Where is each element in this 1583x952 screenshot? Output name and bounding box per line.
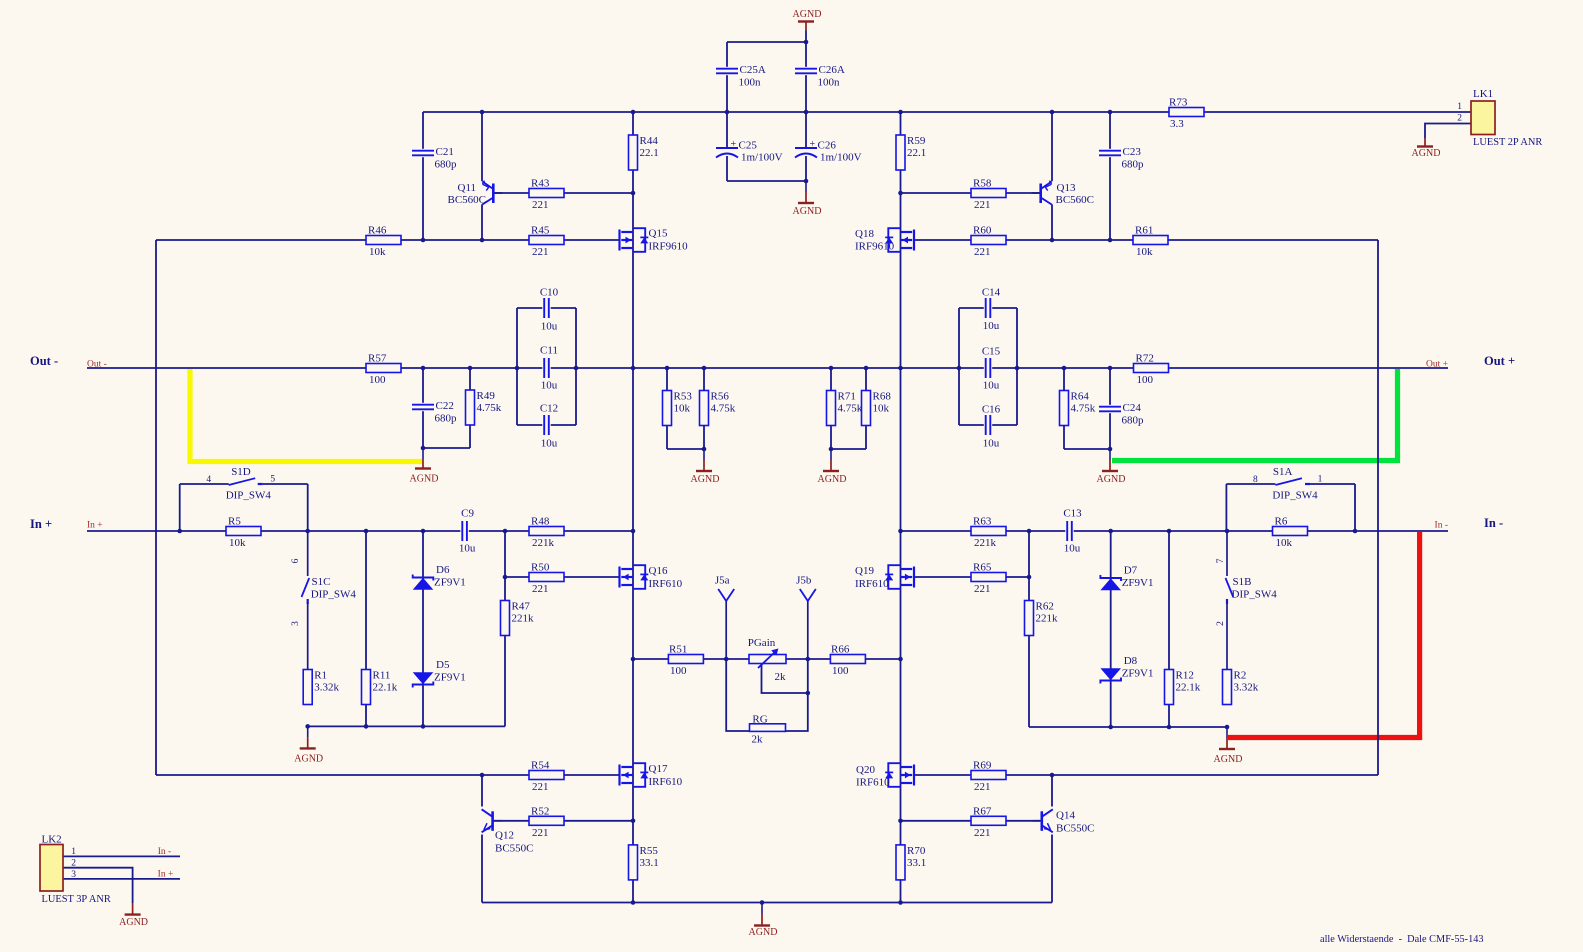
wire R56 column [703, 368, 705, 449]
jumper J5b [796, 575, 816, 659]
transistor Q13 (BC560C PNP) [1032, 181, 1094, 206]
highlight wire yellow (Out- to AGND) [190, 369, 423, 462]
capacitor C26A [795, 64, 845, 89]
resistor R43 [529, 178, 564, 212]
svg-text:In -: In - [1435, 521, 1448, 531]
svg-text:22.1k: 22.1k [373, 682, 398, 694]
switch S1A (DIP_SW4) [1226, 466, 1355, 501]
svg-text:IRF610: IRF610 [855, 578, 889, 590]
wire RG loop left [726, 659, 749, 731]
highlight wire green (AGND to Out+) [1112, 369, 1398, 461]
resistor R60 [971, 225, 1006, 259]
wire C14/C16 loop left [958, 308, 960, 425]
resistor R61 [1133, 225, 1168, 259]
svg-text:R73: R73 [1169, 97, 1188, 109]
svg-text:33.1: 33.1 [640, 857, 659, 869]
svg-text:R57: R57 [368, 353, 387, 365]
wire C25A column [726, 42, 728, 112]
svg-text:+: + [810, 139, 816, 150]
potentiometer PGain [748, 637, 786, 683]
svg-text:BC560C: BC560C [1056, 194, 1095, 206]
svg-text:22.1: 22.1 [640, 147, 659, 159]
svg-text:10k: 10k [873, 403, 890, 415]
svg-text:Q20: Q20 [856, 764, 875, 776]
wire S1D right riser [307, 484, 309, 531]
svg-text:4.75k: 4.75k [711, 403, 736, 415]
svg-text:AGND: AGND [1097, 474, 1126, 485]
svg-text:J5b: J5b [796, 575, 812, 587]
capacitor C25A [716, 64, 766, 89]
svg-text:R1: R1 [314, 670, 327, 682]
svg-text:3: 3 [71, 870, 76, 880]
svg-text:2: 2 [1216, 621, 1226, 626]
wire C22 column [422, 368, 424, 448]
svg-text:6: 6 [291, 558, 301, 563]
wire R45/R46 net y=240 [156, 239, 620, 241]
resistor R45 [529, 225, 564, 259]
svg-text:C15: C15 [982, 346, 1001, 358]
wire left bus x=156 [155, 240, 157, 775]
svg-text:In +: In + [30, 517, 52, 531]
wire R65 net y=577 [915, 576, 1030, 578]
svg-text:Q17: Q17 [649, 763, 668, 775]
svg-text:1m/100V: 1m/100V [820, 152, 862, 164]
wire top rail +rail y=112 [423, 111, 1471, 113]
svg-text:221: 221 [974, 199, 991, 211]
wire Q12 collector riser [481, 775, 483, 807]
svg-text:In +: In + [158, 870, 174, 880]
svg-text:AGND: AGND [294, 753, 323, 764]
svg-text:C26A: C26A [819, 64, 845, 76]
svg-text:221k: 221k [532, 537, 555, 549]
svg-text:AGND: AGND [818, 474, 847, 485]
wire Q12 emitter drop [481, 835, 483, 903]
wire R71 column [830, 368, 832, 449]
svg-text:10u: 10u [541, 380, 558, 392]
svg-text:2k: 2k [752, 734, 764, 746]
zener diode D8 [1100, 655, 1153, 683]
resistor R48 [529, 516, 564, 550]
svg-text:R61: R61 [1135, 225, 1153, 237]
svg-text:R44: R44 [640, 135, 659, 147]
svg-text:IRF610: IRF610 [856, 777, 890, 789]
svg-text:C12: C12 [540, 403, 558, 415]
resistor R59 [896, 135, 926, 170]
svg-text:IRF9610: IRF9610 [855, 241, 895, 253]
svg-text:R55: R55 [640, 845, 659, 857]
svg-text:S1B: S1B [1233, 576, 1252, 588]
resistor R58 [971, 178, 1006, 212]
wire Q13 column [1051, 112, 1053, 181]
wire C10 loop top [517, 307, 576, 309]
wire right bus x=1378 [1377, 240, 1379, 775]
ground AGND [1214, 727, 1243, 765]
capacitor C15 [984, 357, 992, 380]
svg-text:10k: 10k [229, 537, 246, 549]
resistor R54 [529, 760, 564, 794]
svg-text:221k: 221k [512, 613, 535, 625]
transistor Q11 (BC560C PNP) [448, 181, 503, 206]
svg-text:BC560C: BC560C [448, 194, 487, 206]
svg-text:100: 100 [670, 665, 687, 677]
resistor R73 [1169, 97, 1204, 131]
svg-text:R65: R65 [973, 562, 992, 574]
capacitor C12 [542, 414, 550, 437]
zener diode D7 [1100, 565, 1153, 591]
svg-text:C22: C22 [436, 400, 454, 412]
svg-text:BC550C: BC550C [495, 843, 534, 855]
wire R12 column [1168, 531, 1170, 727]
svg-text:In -: In - [158, 847, 171, 857]
wire R54 net y=775 [156, 774, 620, 776]
svg-text:1: 1 [1457, 102, 1462, 112]
zener diode D6 [413, 564, 466, 590]
svg-text:C25: C25 [739, 140, 758, 152]
svg-text:221: 221 [532, 246, 549, 258]
wire R67 net y=820.8 [901, 820, 1041, 822]
svg-text:AGND: AGND [410, 474, 439, 485]
svg-text:AGND: AGND [1214, 754, 1243, 765]
svg-text:7: 7 [1216, 558, 1226, 563]
svg-text:ZF9V1: ZF9V1 [1122, 668, 1154, 680]
svg-text:In -: In - [1484, 516, 1503, 530]
transistor Q15 (IRF9610 MOSFET) [620, 228, 689, 253]
svg-text:221k: 221k [974, 537, 997, 549]
svg-text:R43: R43 [531, 178, 550, 190]
svg-text:C21: C21 [436, 146, 454, 158]
labels C10-C12 [540, 287, 1001, 450]
wire left join y=726.4 [308, 725, 505, 727]
svg-text:100: 100 [1137, 374, 1154, 386]
wire C14 loop top [959, 307, 1017, 309]
wire LK1 pin2 to AGND [1425, 124, 1471, 139]
ground AGND [818, 449, 847, 485]
svg-text:R72: R72 [1136, 353, 1154, 365]
svg-text:10u: 10u [983, 438, 1000, 450]
resistor R67 [971, 805, 1006, 839]
wire top cap loop [727, 41, 806, 43]
svg-text:2: 2 [71, 859, 76, 869]
svg-text:10u: 10u [459, 543, 476, 555]
svg-text:R2: R2 [1234, 670, 1247, 682]
capacitor C24 [1099, 402, 1145, 427]
svg-text:R48: R48 [531, 516, 550, 528]
zener diode D5 [413, 659, 466, 687]
wire R60/R61 net y=240 [915, 239, 1379, 241]
wire C26 column [805, 112, 807, 181]
svg-text:D5: D5 [436, 659, 450, 671]
wire In+ net y=531 [87, 530, 633, 532]
wire Q14 collector riser [1051, 775, 1053, 807]
svg-text:S1A: S1A [1273, 466, 1293, 478]
svg-text:10k: 10k [1136, 246, 1153, 258]
svg-text:R66: R66 [831, 644, 850, 656]
svg-text:100: 100 [369, 374, 386, 386]
svg-text:D7: D7 [1124, 565, 1138, 577]
svg-text:C13: C13 [1063, 508, 1082, 520]
svg-text:1: 1 [71, 847, 76, 857]
wire R59 bus top [900, 112, 902, 193]
svg-text:AGND: AGND [691, 474, 720, 485]
wire R47 column [504, 531, 506, 726]
svg-text:IRF610: IRF610 [649, 578, 683, 590]
resistor R65 [971, 562, 1006, 596]
svg-text:2: 2 [1457, 114, 1462, 124]
svg-text:IRF610: IRF610 [649, 776, 683, 788]
resistor RG [750, 714, 786, 746]
svg-text:221: 221 [532, 827, 549, 839]
svg-text:R56: R56 [711, 391, 730, 403]
wire R58 net y=193 [901, 192, 1041, 194]
svg-text:10k: 10k [1276, 537, 1293, 549]
svg-text:Out -: Out - [87, 360, 107, 370]
resistor R44 [629, 135, 659, 170]
svg-text:LK1: LK1 [1473, 88, 1493, 100]
svg-text:2k: 2k [775, 671, 787, 683]
svg-text:R70: R70 [907, 845, 926, 857]
svg-text:R49: R49 [477, 390, 496, 402]
svg-text:10k: 10k [674, 403, 691, 415]
resistor R50 [529, 562, 564, 596]
svg-text:221: 221 [974, 827, 991, 839]
switch S1B (DIP_SW4) [1216, 531, 1277, 669]
resistor R71 [827, 391, 863, 426]
wire D6/D5 column [422, 531, 424, 726]
svg-text:AGND: AGND [119, 917, 148, 928]
wire C23 column [1109, 112, 1111, 240]
wire R69 net y=775 [915, 774, 1379, 776]
svg-text:C23: C23 [1123, 146, 1142, 158]
svg-text:R62: R62 [1036, 601, 1054, 613]
svg-text:680p: 680p [1122, 415, 1145, 427]
svg-text:C26: C26 [818, 140, 837, 152]
wire bottom net y=902.5 [482, 902, 1052, 904]
svg-text:Q16: Q16 [649, 565, 668, 577]
svg-text:R51: R51 [669, 644, 687, 656]
svg-text:+: + [731, 139, 737, 150]
svg-text:C14: C14 [982, 287, 1001, 299]
svg-text:ZF9V1: ZF9V1 [434, 577, 466, 589]
svg-text:R12: R12 [1176, 670, 1194, 682]
wire R50 net y=577 [505, 576, 620, 578]
ground AGND (LK1) [1412, 138, 1441, 159]
svg-text:R60: R60 [973, 225, 992, 237]
svg-text:Out +: Out + [1426, 360, 1448, 370]
capacitor C9 [459, 508, 476, 555]
capacitor C26 (polarized) [795, 139, 862, 164]
switch S1C (DIP_SW4) [291, 531, 357, 669]
resistor R49 [466, 390, 502, 425]
svg-text:R67: R67 [973, 805, 992, 817]
resistor R52 [529, 805, 564, 839]
wire R68 column [865, 368, 867, 449]
wire LK2 pin3 (In+) [63, 878, 180, 880]
transistor Q16 (IRF610 MOSFET) [620, 565, 683, 590]
resistor R66 [830, 644, 865, 678]
wire PGain wiper [762, 664, 808, 693]
svg-text:Q14: Q14 [1056, 810, 1075, 822]
jumper J5a [715, 575, 734, 659]
svg-text:AGND: AGND [793, 206, 822, 217]
svg-text:Q12: Q12 [495, 830, 514, 842]
svg-text:100n: 100n [818, 77, 841, 89]
wire RG loop right [786, 659, 808, 731]
ground AGND [793, 181, 822, 217]
svg-text:680p: 680p [1122, 159, 1145, 171]
svg-text:S1C: S1C [312, 576, 331, 588]
svg-text:3.3: 3.3 [1170, 118, 1184, 130]
wire Q14 emitter drop [1051, 835, 1053, 903]
wire center-left bus x=633 [632, 193, 634, 903]
svg-text:R53: R53 [674, 391, 693, 403]
svg-text:1: 1 [1318, 475, 1323, 485]
svg-text:DIP_SW4: DIP_SW4 [1232, 589, 1278, 601]
svg-text:221: 221 [532, 199, 549, 211]
svg-text:R6: R6 [1275, 516, 1288, 528]
connector LK2 (LUEST 3P ANR) [40, 834, 111, 905]
svg-text:8: 8 [1253, 475, 1258, 485]
svg-text:3.32k: 3.32k [314, 682, 339, 694]
svg-text:10u: 10u [541, 321, 558, 333]
svg-text:R68: R68 [873, 391, 892, 403]
wire R64 column [1063, 368, 1065, 449]
svg-text:BC550C: BC550C [1056, 823, 1095, 835]
ground AGND [294, 726, 323, 764]
wire C25 column [726, 112, 728, 181]
svg-text:R46: R46 [368, 225, 387, 237]
wire LK2 pin2 to AGND [63, 868, 133, 903]
svg-text:4.75k: 4.75k [477, 402, 502, 414]
wire S1A right riser [1354, 484, 1356, 531]
wire R51/R66 net y=659 [633, 658, 901, 660]
wire S1D left riser [179, 484, 181, 531]
svg-text:R71: R71 [838, 391, 856, 403]
transistor Q17 (IRF610 MOSFET) [620, 763, 683, 788]
resistor R55 [629, 845, 659, 880]
resistor R2 [1223, 670, 1259, 705]
svg-text:D6: D6 [436, 564, 450, 576]
wire right join y=727 [1029, 726, 1227, 728]
capacitor C21 [412, 146, 458, 171]
svg-text:D8: D8 [1124, 655, 1138, 667]
resistor R72 [1134, 353, 1169, 387]
svg-text:LK2: LK2 [42, 834, 62, 846]
wire D7/D8 column [1110, 531, 1112, 727]
resistor R6 [1273, 516, 1308, 550]
transistor Q14 (BC550C NPN) [1033, 809, 1095, 834]
resistor R69 [971, 760, 1006, 794]
svg-text:Q11: Q11 [458, 182, 477, 194]
wire R11 column [365, 531, 367, 726]
wire In- net y=531 [901, 530, 1449, 532]
wire center-right bus x=900.5 [900, 193, 902, 903]
svg-text:PGain: PGain [748, 637, 776, 649]
svg-text:S1D: S1D [231, 466, 251, 478]
resistor R53 [663, 391, 693, 426]
svg-text:R47: R47 [512, 601, 531, 613]
svg-text:221: 221 [532, 781, 549, 793]
svg-text:1m/100V: 1m/100V [741, 152, 783, 164]
resistor R46 [366, 225, 401, 259]
svg-text:221: 221 [974, 246, 991, 258]
svg-text:R5: R5 [228, 516, 241, 528]
svg-text:10u: 10u [541, 438, 558, 450]
svg-text:10u: 10u [983, 320, 1000, 332]
capacitor C14 [984, 297, 992, 320]
svg-text:C11: C11 [540, 345, 558, 357]
svg-text:C9: C9 [461, 508, 474, 520]
capacitor C13 [1063, 508, 1082, 555]
svg-text:3.32k: 3.32k [1234, 682, 1259, 694]
svg-text:4.75k: 4.75k [838, 403, 863, 415]
svg-text:DIP_SW4: DIP_SW4 [311, 589, 357, 601]
ground AGND [691, 449, 720, 485]
svg-text:J5a: J5a [715, 575, 730, 587]
svg-text:C25A: C25A [740, 64, 766, 76]
svg-text:C10: C10 [540, 287, 559, 299]
svg-text:221: 221 [974, 583, 991, 595]
wire Q11 collector/emitter column [481, 112, 483, 181]
capacitor C11 [542, 357, 550, 380]
wire R44 bus top [632, 112, 634, 193]
wire C16 loop bottom [959, 424, 1017, 426]
wire C24 column [1109, 368, 1111, 449]
svg-text:AGND: AGND [749, 927, 778, 938]
wire R52 net y=820.8 [494, 820, 633, 822]
svg-text:DIP_SW4: DIP_SW4 [226, 489, 272, 501]
svg-text:ZF9V1: ZF9V1 [434, 672, 466, 684]
svg-text:R50: R50 [531, 562, 550, 574]
resistor R12 [1165, 670, 1201, 705]
wire Out net y=368 [87, 367, 1448, 369]
svg-text:221: 221 [532, 583, 549, 595]
svg-text:Out +: Out + [1484, 354, 1515, 368]
capacitor C23 [1099, 146, 1145, 171]
wire bottom cap loop [727, 180, 806, 182]
svg-text:5: 5 [270, 475, 275, 485]
wire C10/C12 loop left [516, 308, 518, 425]
ground AGND (LK2) [119, 903, 148, 928]
capacitor C22 [412, 400, 458, 425]
svg-text:alle Widerstaende - Dale CMF: alle Widerstaende - Dale CMF-55-143 [1320, 934, 1484, 945]
resistor R51 [668, 644, 703, 678]
wire R62 column [1028, 531, 1030, 727]
svg-text:33.1: 33.1 [907, 857, 926, 869]
svg-text:Out -: Out - [30, 354, 58, 368]
resistor R68 [862, 391, 892, 426]
svg-text:100n: 100n [739, 77, 762, 89]
svg-text:10k: 10k [369, 246, 386, 258]
svg-text:Q18: Q18 [855, 228, 874, 240]
svg-text:4: 4 [206, 475, 211, 485]
ground AGND [749, 903, 778, 939]
svg-text:221: 221 [974, 781, 991, 793]
wire C10/C12 loop right [575, 308, 577, 425]
transistor Q18 (IRF9610 MOSFET) [855, 228, 914, 253]
wire R49 column [469, 368, 471, 448]
wire R49-C22 bottom [423, 447, 470, 449]
svg-text:IRF9610: IRF9610 [649, 241, 689, 253]
resistor R70 [896, 845, 926, 880]
svg-text:680p: 680p [435, 413, 458, 425]
capacitor C10 [542, 297, 550, 320]
svg-text:In +: In + [87, 521, 103, 531]
svg-text:RG: RG [752, 714, 767, 726]
svg-text:AGND: AGND [793, 9, 822, 20]
ground AGND [1097, 449, 1126, 485]
svg-text:221k: 221k [1036, 613, 1059, 625]
svg-text:C16: C16 [982, 404, 1001, 416]
